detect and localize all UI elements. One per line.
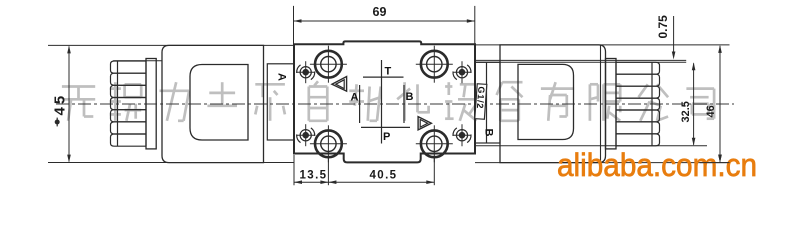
- svg-text:69: 69: [373, 5, 387, 19]
- armature tube line pair (0.75 gap): [476, 59, 686, 61]
- dim 69 extension right: [474, 6, 476, 44]
- svg-text:46: 46: [705, 105, 717, 117]
- left knob collar: [146, 59, 156, 149]
- left adapter strip: [267, 64, 294, 140]
- left coil inner face: [190, 65, 248, 141]
- port A tick: [359, 85, 361, 123]
- valve body outline: [294, 41, 475, 162]
- svg-text:13.5: 13.5: [300, 170, 328, 182]
- center axis line: [56, 103, 734, 105]
- redraw 46 dim over orange text: [700, 130, 730, 163]
- dim phi45 symbol: [55, 120, 60, 125]
- right coil body: [500, 45, 606, 163]
- dim phi45 extension bottom: [48, 162, 294, 164]
- svg-text:T: T: [385, 66, 392, 78]
- dim 32.5 line: [693, 63, 695, 145]
- svg-text:A: A: [351, 92, 359, 104]
- dim 0.75 leader: [673, 16, 675, 52]
- svg-text:B: B: [483, 129, 495, 137]
- watermark company name: [62, 81, 714, 121]
- dim 69 extension left: [293, 6, 295, 44]
- right coil end cap line: [600, 45, 602, 163]
- svg-text:A: A: [276, 73, 288, 81]
- coil bottom extension: [475, 162, 730, 164]
- port P tick: [361, 126, 410, 128]
- svg-text:P: P: [383, 131, 390, 143]
- triangle marker right: [418, 117, 431, 130]
- coil top extension: [475, 44, 730, 46]
- svg-text:32.5: 32.5: [680, 101, 692, 122]
- left knob ribs: [111, 61, 147, 146]
- dim phi45 extension top: [48, 44, 294, 46]
- triangle marker left: [332, 77, 347, 92]
- bolt hole top-right: [416, 46, 453, 83]
- dim phi45 arrow up: [67, 45, 71, 53]
- dim 13.5 line: [294, 181, 328, 183]
- bolt hole bottom-right: [416, 125, 453, 162]
- port T tick: [363, 76, 404, 78]
- port center vertical line: [381, 60, 383, 144]
- right adapter strip divider: [486, 62, 488, 143]
- G1/2 label box: [474, 84, 487, 120]
- svg-text:40.5: 40.5: [370, 170, 398, 182]
- dim phi45 line: [68, 47, 70, 162]
- bolt hole bottom-left: [310, 125, 347, 162]
- left knob tube line pair: [113, 60, 162, 62]
- right knob collar: [606, 59, 617, 149]
- svg-text:G1/2: G1/2: [475, 86, 487, 109]
- pin hole top-right: [452, 61, 472, 83]
- dim 46 line: [719, 46, 721, 162]
- svg-text:alibaba.com.cn: alibaba.com.cn: [557, 147, 757, 183]
- dim 13.5 / 40.5 extensions: [293, 155, 295, 185]
- pin hole bottom-left: [296, 124, 316, 146]
- bolt hole top-left: [310, 46, 347, 83]
- pin hole top-left: [296, 61, 316, 83]
- svg-text:B: B: [406, 91, 414, 103]
- knob bottom extension: [476, 145, 707, 147]
- port B tick: [403, 85, 405, 123]
- dim 40.5 line: [328, 181, 434, 183]
- left coil body: [162, 45, 264, 162]
- dim phi45 arrow down: [67, 155, 71, 163]
- right coil inner face: [518, 64, 574, 139]
- svg-text:45: 45: [51, 93, 68, 116]
- pin hole bottom-right: [452, 124, 472, 146]
- svg-text:0.75: 0.75: [656, 15, 670, 39]
- right adapter strip: [475, 62, 500, 143]
- right knob ribs: [616, 62, 660, 146]
- dim 69 line: [294, 20, 475, 22]
